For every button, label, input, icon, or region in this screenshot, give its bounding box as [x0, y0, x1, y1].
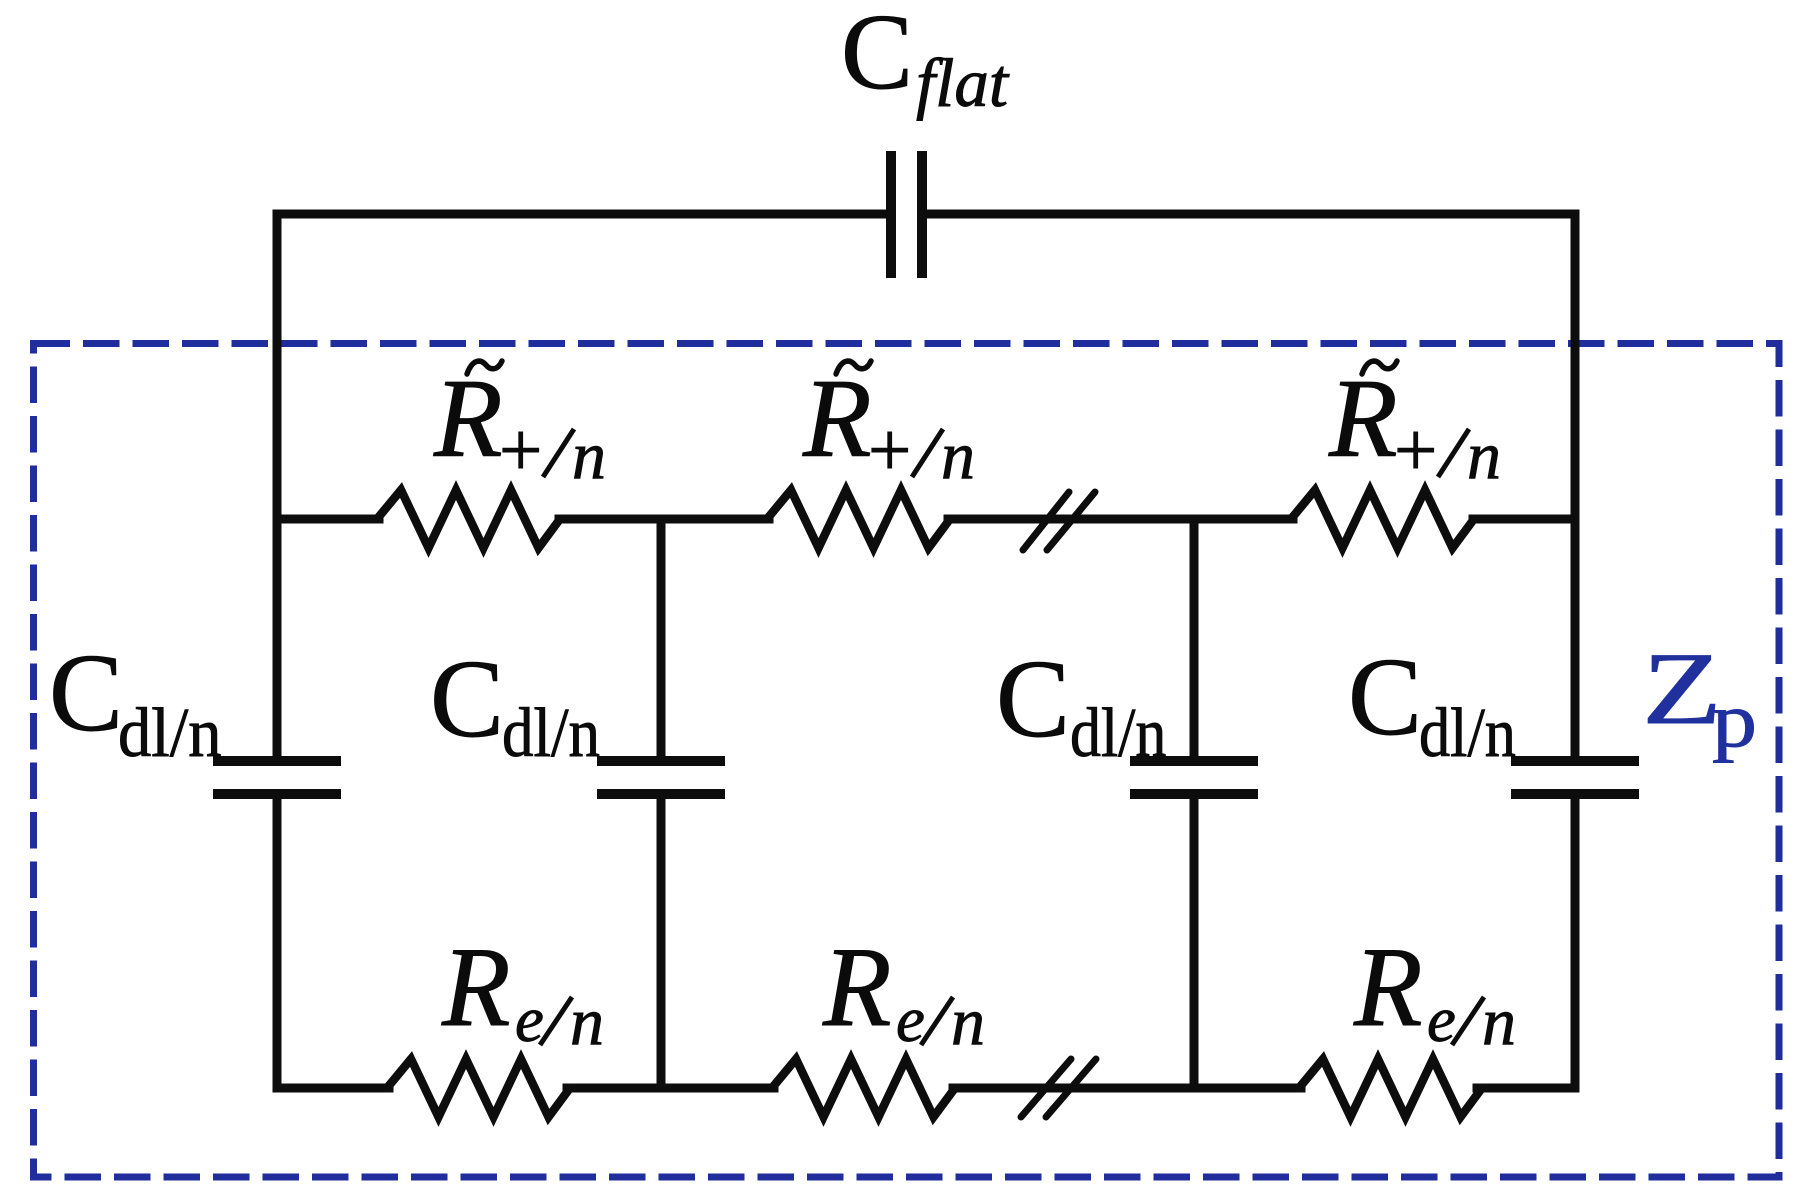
svg-text:n: n: [941, 417, 975, 493]
svg-text:C: C: [49, 632, 123, 755]
resistor Re/n 2 zigzag: [772, 1059, 955, 1117]
svg-text:e: e: [1427, 984, 1456, 1056]
svg-text:p: p: [1712, 678, 1757, 763]
svg-text:dl/n: dl/n: [1419, 695, 1516, 772]
capacitor label C_flat: [841, 0, 1010, 121]
svg-text:dl/n: dl/n: [118, 693, 221, 771]
wire right vertical upper: [1571, 214, 1580, 757]
svg-text:C: C: [996, 638, 1070, 761]
resistor R+/n 3 zigzag: [1291, 490, 1474, 548]
wire ladder bottom rail segment 1: [277, 1084, 389, 1093]
capacitor C_dl/n 2 plates: [597, 761, 725, 794]
svg-text:n: n: [570, 983, 604, 1059]
node B vertical wire lower: [1190, 798, 1199, 1088]
svg-text:n: n: [572, 417, 606, 493]
svg-text:+: +: [1394, 407, 1437, 493]
svg-text:C: C: [1348, 636, 1422, 759]
capacitor label C_dl/n 4: [1348, 636, 1516, 772]
wire ladder bottom rail segment 3: [953, 1084, 1301, 1093]
wire break marks bottom rail: [1021, 1059, 1096, 1117]
svg-text:n: n: [1467, 417, 1501, 493]
wire ladder bottom rail segment 2: [567, 1084, 774, 1093]
wire ladder top rail segment 2: [559, 515, 769, 524]
capacitor C_dl/n 1 plates: [213, 761, 341, 794]
svg-text:dl/n: dl/n: [502, 695, 600, 772]
resistor Re/n 1 zigzag: [387, 1059, 570, 1117]
resistor label Re/n 3: [1353, 926, 1516, 1059]
node A vertical wire lower: [657, 798, 666, 1088]
dashed box Zp: [34, 344, 1780, 1178]
svg-text:R: R: [433, 357, 503, 481]
resistor label Re/n 1: [441, 926, 604, 1059]
wire right vertical lower: [1571, 798, 1580, 1088]
capacitor C_dl/n 4 plates: [1511, 761, 1639, 794]
wire top rail left of C_flat: [277, 210, 886, 219]
svg-text:R: R: [822, 926, 892, 1051]
svg-text:Z: Z: [1642, 632, 1722, 746]
wire ladder top rail segment 1: [277, 515, 379, 524]
wire break marks top rail: [1023, 492, 1095, 550]
wire ladder bottom rail segment 4: [1477, 1084, 1575, 1093]
capacitor label C_dl/n 1: [49, 632, 221, 771]
resistor label R+/n 3: [1328, 357, 1501, 493]
wire top rail right of C_flat: [927, 210, 1575, 219]
resistor label R+/n 1: [433, 357, 606, 493]
svg-text:flat: flat: [916, 45, 1010, 121]
capacitor label C_dl/n 2: [430, 638, 600, 772]
wire ladder top rail segment 3: [948, 515, 1293, 524]
wire left vertical lower: [273, 798, 282, 1088]
resistor R+/n 2 zigzag: [767, 490, 950, 548]
svg-text:+: +: [499, 407, 542, 493]
svg-text:n: n: [1482, 983, 1516, 1059]
resistor R+/n 1 zigzag: [377, 490, 560, 548]
svg-text:+: +: [868, 407, 911, 493]
capacitor C_dl/n 3 plates: [1130, 761, 1258, 794]
svg-text:dl/n: dl/n: [1070, 695, 1166, 772]
svg-text:e: e: [515, 984, 544, 1056]
resistor label Re/n 2: [822, 926, 985, 1059]
svg-text:C: C: [841, 0, 913, 112]
svg-text:C: C: [430, 638, 504, 761]
capacitor label C_dl/n 3: [996, 638, 1166, 772]
resistor label R+/n 2: [802, 357, 975, 493]
node B vertical wire upper (third branch): [1190, 519, 1199, 757]
svg-text:R: R: [1328, 357, 1398, 481]
svg-text:R: R: [802, 357, 872, 481]
svg-text:R: R: [1353, 926, 1423, 1051]
svg-text:n: n: [951, 983, 985, 1059]
resistor Re/n 3 zigzag: [1299, 1059, 1482, 1117]
wire left vertical upper: [273, 214, 282, 757]
node A vertical wire upper (second branch): [657, 519, 666, 757]
wire ladder top rail segment 4: [1473, 515, 1575, 524]
svg-text:R: R: [441, 926, 511, 1051]
node label Zp: [1642, 632, 1757, 763]
svg-text:e: e: [896, 984, 925, 1056]
capacitor C_flat plates: [891, 151, 922, 278]
